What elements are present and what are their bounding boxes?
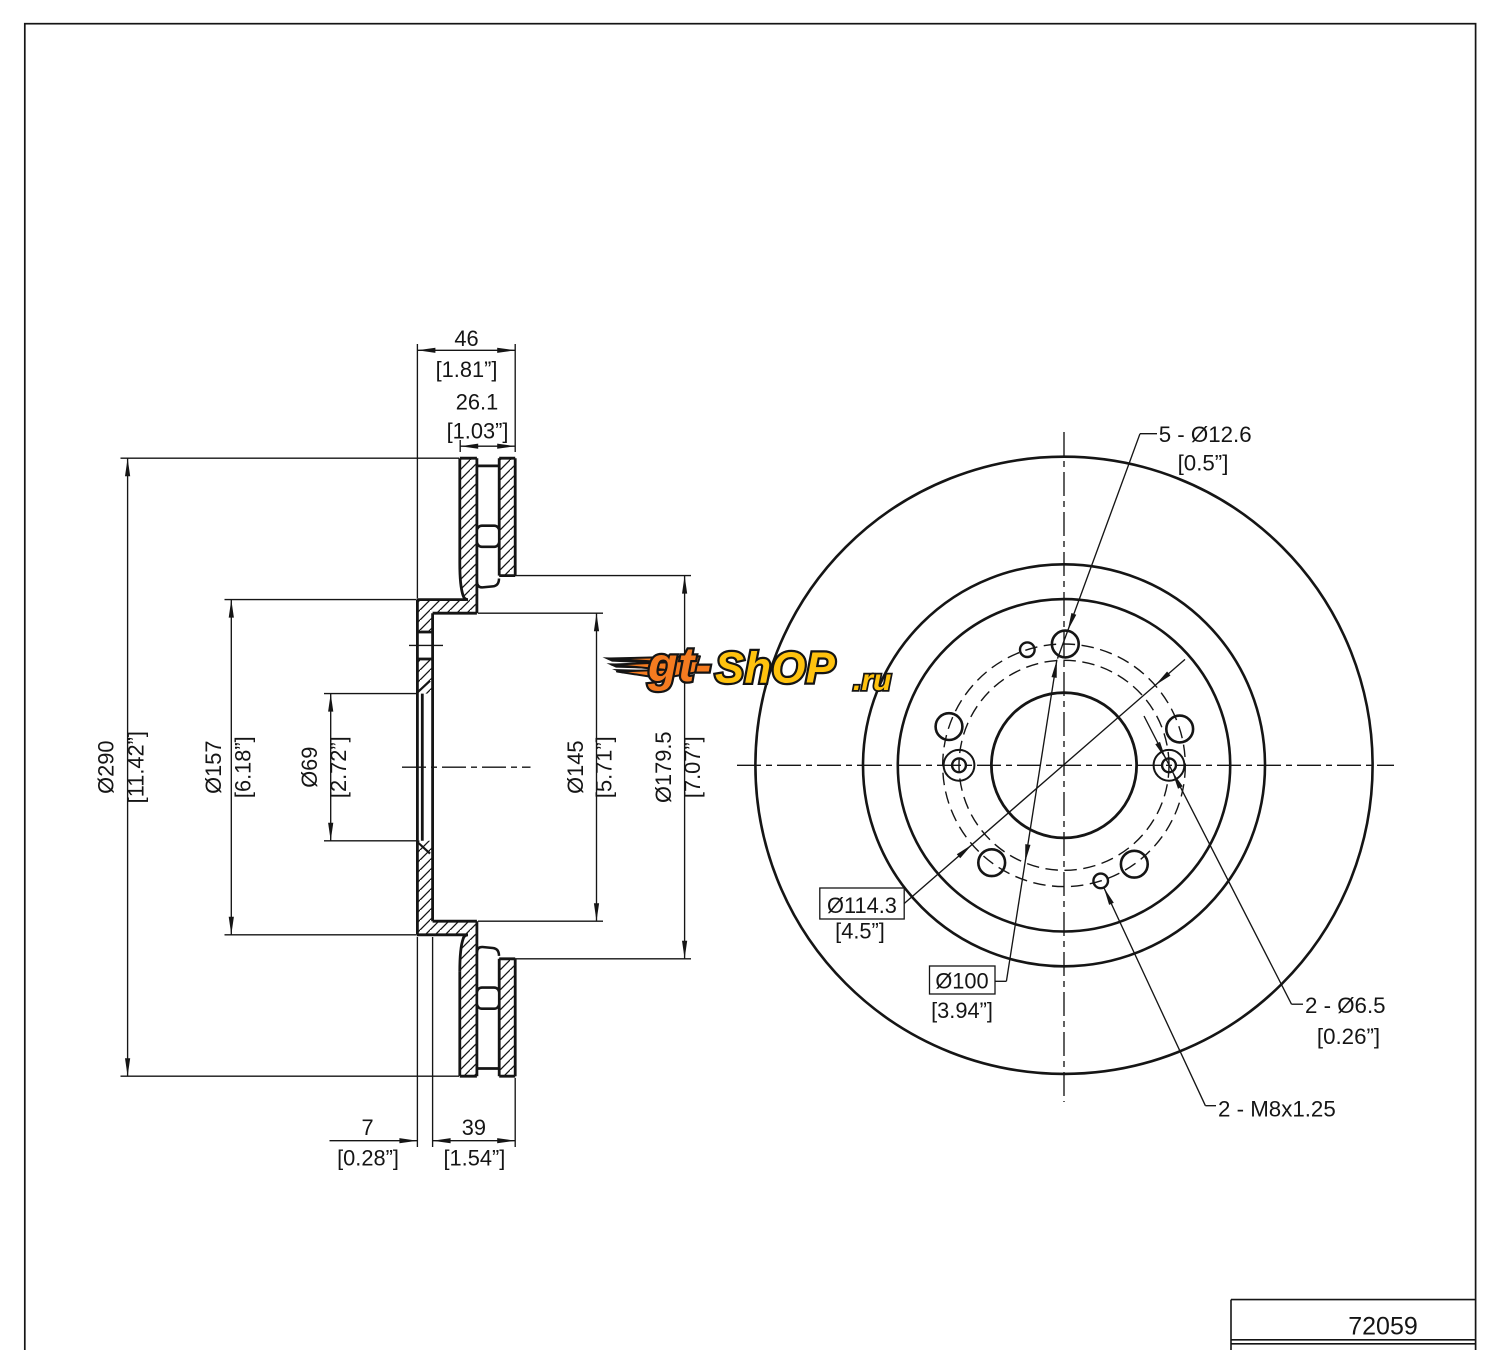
label 5-D12.6 with leader (1140, 433, 1157, 435)
lug hole 4 (D12.6) (978, 849, 1005, 876)
svg-text:[0.5”]: [0.5”] (1178, 450, 1229, 475)
bolt circle D114.3 (943, 644, 1186, 887)
pin hole 2 (D6.5) with boss (1154, 750, 1185, 781)
svg-text:2 - M8x1.25: 2 - M8x1.25 (1218, 1096, 1336, 1121)
gt-shop.ru watermark logo (603, 639, 892, 697)
svg-text:[0.26”]: [0.26”] (1317, 1024, 1380, 1049)
svg-text:Ø157: Ø157 (201, 741, 226, 794)
svg-text:Ø290: Ø290 (94, 741, 119, 794)
svg-text:[5.71”]: [5.71”] (592, 736, 617, 798)
label 2-M8x1.25 with leader (1205, 1105, 1216, 1107)
hub bore (991, 693, 1136, 838)
title block (1231, 1299, 1476, 1301)
dimension D179.5 (501, 575, 691, 577)
label 2-D6.5 with leader through pin hole (1292, 1003, 1304, 1005)
svg-text:46: 46 (454, 326, 478, 351)
svg-text:7: 7 (361, 1115, 373, 1140)
svg-text:[1.81”]: [1.81”] (436, 357, 498, 382)
dimension D69 (324, 693, 416, 695)
svg-text:[11.42”]: [11.42”] (124, 731, 149, 803)
mounting face and flange inner face (416, 600, 419, 935)
M8 thread hole 2 (1093, 874, 1108, 889)
svg-text:Ø69: Ø69 (297, 747, 322, 788)
svg-text:[1.54”]: [1.54”] (444, 1146, 506, 1171)
lug hole 2 (D12.6) (1166, 716, 1193, 743)
svg-text:[2.72”]: [2.72”] (326, 736, 351, 798)
svg-text:72059: 72059 (1348, 1313, 1418, 1341)
svg-text:2 - Ø6.5: 2 - Ø6.5 (1305, 993, 1386, 1018)
svg-text:[1.03”]: [1.03”] (447, 418, 509, 443)
section view: rotor cross-section hatched regions (417, 458, 477, 693)
dimension 7 (416, 937, 418, 1147)
hat outer edge (898, 599, 1230, 931)
svg-text:Ø114.3: Ø114.3 (827, 893, 897, 918)
section outline: plate faces (458, 458, 461, 563)
flange bolt hole (section) (417, 631, 432, 634)
svg-text:Ø145: Ø145 (563, 741, 588, 794)
svg-text:[0.28”]: [0.28”] (337, 1146, 399, 1171)
M8 thread hole 1 (1020, 642, 1035, 657)
bolt circle D100 (959, 660, 1169, 870)
dimension 39 (514, 1078, 516, 1147)
svg-text:gt-: gt- (647, 639, 712, 692)
disc outer edge (755, 457, 1372, 1074)
boxed label D100 with diameter leader (995, 980, 1006, 982)
front view centerlines (1063, 432, 1065, 1102)
dimension D290 (121, 457, 460, 459)
svg-text:39: 39 (462, 1115, 486, 1140)
svg-text:ShOP: ShOP (715, 645, 836, 693)
dimension D145 (478, 612, 603, 614)
pin hole 1 (D6.5) with boss (944, 750, 975, 781)
dimension 26.1 (459, 440, 461, 452)
svg-text:Ø179.5: Ø179.5 (651, 731, 676, 803)
svg-text:.ru: .ru (853, 664, 891, 697)
friction band inner edge (863, 564, 1265, 966)
lug hole 3 (D12.6) (1121, 851, 1148, 878)
svg-text:[3.94”]: [3.94”] (931, 998, 993, 1023)
svg-text:26.1: 26.1 (456, 389, 498, 414)
vent channel inner end (477, 579, 499, 588)
section outline: outer edges of friction ring (460, 457, 477, 460)
vane cross-sections in vent (477, 526, 499, 547)
section view axis centerline (402, 766, 531, 768)
svg-text:[7.07”]: [7.07”] (680, 736, 705, 798)
svg-text:[6.18”]: [6.18”] (231, 736, 256, 798)
hat shoulder and wall (417, 598, 467, 601)
lug hole 5 (D12.6) (936, 713, 963, 740)
svg-text:[4.5”]: [4.5”] (835, 919, 885, 944)
svg-text:Ø100: Ø100 (935, 969, 988, 994)
dimension 46 (416, 344, 418, 598)
dimension D157 (225, 599, 417, 601)
boxed label D114.3 with diameter leader (904, 659, 1185, 903)
svg-text:5 - Ø12.6: 5 - Ø12.6 (1159, 422, 1252, 447)
lug hole 1 (D12.6) (1052, 631, 1079, 658)
hub bore with chamfers (421, 694, 424, 841)
